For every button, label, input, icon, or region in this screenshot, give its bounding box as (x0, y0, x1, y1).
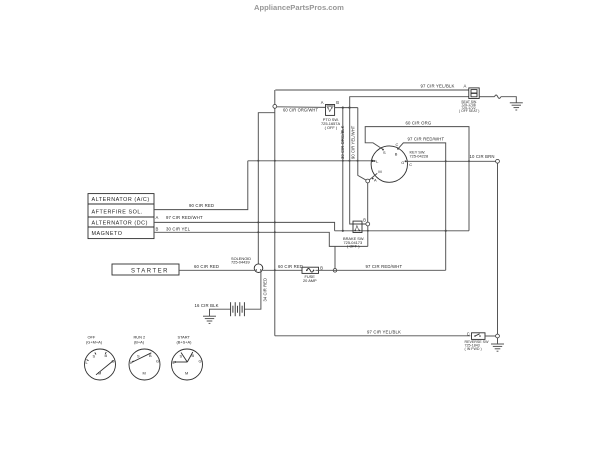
wire: 10 CIR BRN (key G to reverse node) (406, 154, 500, 334)
svg-text:AFTERFIRE SOL.: AFTERFIRE SOL. (92, 209, 143, 215)
reverse switch 725-1843 (465, 331, 490, 351)
svg-text:97 CIR RED/WHT: 97 CIR RED/WHT (366, 264, 403, 269)
ground: seat circuit (510, 103, 523, 110)
svg-text:60 CIR RED: 60 CIR RED (194, 264, 219, 269)
wire: starter to solenoid (179, 264, 254, 271)
wire: 97 CIR YEL/BLK bottom run (275, 329, 471, 336)
svg-text:ALTERNATOR (A/C): ALTERNATOR (A/C) (92, 197, 150, 203)
svg-text:A: A (321, 100, 324, 105)
node: key M/A junction (366, 173, 377, 222)
svg-text:725-04228: 725-04228 (410, 154, 429, 159)
svg-text:97 CIR YEL/BLK: 97 CIR YEL/BLK (367, 329, 401, 334)
wire: drop x=342.8 to kill line (342, 108, 344, 231)
rotated wire label 90 CIR YEL/WHT (351, 125, 356, 159)
svg-text:B: B (395, 152, 398, 157)
svg-text:30 CIR ORG/BLK: 30 CIR ORG/BLK (340, 125, 345, 159)
svg-text:C: C (467, 331, 470, 336)
svg-text:(B+S+A): (B+S+A) (177, 340, 193, 345)
svg-text:S: S (93, 354, 96, 359)
svg-text:C: C (396, 142, 399, 147)
svg-text:97 CIR RED/WHT: 97 CIR RED/WHT (166, 215, 203, 220)
svg-text:G: G (156, 359, 159, 364)
svg-text:60 CIR ORG/WHT: 60 CIR ORG/WHT (283, 107, 318, 112)
svg-text:AppliancePartsPros.com: AppliancePartsPros.com (254, 3, 344, 12)
svg-text:B: B (336, 100, 339, 105)
svg-text:B: B (156, 226, 159, 231)
wire: PTO B out (335, 107, 358, 109)
wire: 90 CIR RED (afterfire row to key L line) (154, 161, 248, 210)
svg-text:34 CIR RED: 34 CIR RED (263, 278, 268, 302)
solenoid 725-04439 (231, 256, 263, 273)
wire: 97 CIR YEL/BLK top run (275, 83, 469, 90)
wire: solenoid to fuse (263, 264, 303, 271)
wire: battery - to ground (195, 303, 231, 316)
wire: reverse switch to ground node (485, 334, 499, 344)
key position diagram START (172, 335, 203, 381)
engine connection table (88, 194, 154, 239)
svg-text:( OFF ): ( OFF ) (347, 244, 360, 249)
wire: left main vertical (274, 90, 276, 336)
wire: branch to solenoid riser (258, 113, 275, 264)
key position diagram RUN 2 (129, 335, 160, 381)
svg-text:G: G (401, 160, 404, 165)
node: harness connector (273, 105, 277, 109)
svg-text:(B+A): (B+A) (134, 340, 145, 345)
svg-text:A: A (464, 84, 467, 89)
svg-text:20 AMP: 20 AMP (303, 278, 317, 283)
svg-text:16 CIR BLK: 16 CIR BLK (195, 303, 219, 308)
svg-text:60 CIR ORG: 60 CIR ORG (406, 120, 432, 125)
wire: seat switch B to ground w/ break (479, 95, 516, 103)
svg-text:725-04439: 725-04439 (231, 260, 250, 265)
svg-text:M: M (143, 371, 146, 376)
svg-text:( OFF ): ( OFF ) (325, 125, 338, 130)
svg-text:( OFF SEAT ): ( OFF SEAT ) (459, 109, 479, 113)
svg-text:MAGNETO: MAGNETO (92, 231, 123, 237)
node: brake output (366, 222, 370, 246)
key switch 725-04228 (371, 142, 428, 183)
svg-text:M: M (185, 371, 188, 376)
svg-text:( IN FWD ): ( IN FWD ) (465, 347, 482, 351)
svg-text:97 CIR YEL/BLK: 97 CIR YEL/BLK (421, 83, 455, 88)
svg-text:M: M (378, 169, 381, 174)
wire: 60 CIR ORG (key S to x=469 riser) (365, 120, 470, 231)
svg-text:A: A (374, 177, 377, 182)
seat switch 725-1708 (459, 88, 479, 113)
wire: key L line (248, 160, 374, 162)
svg-text:G: G (199, 359, 202, 364)
watermark header (254, 3, 344, 12)
svg-text:B: B (320, 265, 323, 270)
brake switch (343, 217, 366, 248)
wire: fuse to key B riser, 97 CIR RED/WHT (316, 264, 446, 270)
svg-text:ALTERNATOR (DC): ALTERNATOR (DC) (92, 221, 148, 227)
svg-text:B: B (363, 217, 366, 222)
svg-text:STARTER: STARTER (131, 268, 169, 274)
svg-text:90 CIR RED: 90 CIR RED (189, 203, 214, 208)
wire: seat lower run from x=349.7 (350, 97, 469, 224)
svg-text:10 CIR BRN: 10 CIR BRN (470, 154, 495, 159)
svg-text:S: S (137, 354, 140, 359)
battery (231, 302, 245, 316)
rotated wire label 30 CIR ORG/BLK (340, 125, 345, 159)
wire: drop x=357.8 to key M/A node (358, 108, 366, 181)
svg-text:(G+M+A): (G+M+A) (86, 340, 103, 345)
starter box (112, 264, 179, 275)
svg-text:S: S (383, 150, 386, 155)
svg-text:C: C (409, 162, 412, 167)
fuse 20 amp (302, 265, 323, 283)
key position diagram OFF (85, 335, 116, 381)
svg-text:30 CIR YEL: 30 CIR YEL (166, 226, 191, 231)
wire: under-brake kill line to x=469 riser (335, 230, 469, 232)
svg-text:97 CIR RED/WHT: 97 CIR RED/WHT (408, 137, 445, 142)
wire: 97 CIR RED/WHT (key B riser) (398, 137, 447, 271)
svg-text:A: A (156, 215, 159, 220)
wire: A 97 CIR RED/WHT (alternator DC row) (154, 215, 335, 231)
ground: battery (203, 316, 216, 323)
PTO switch 725-1657A (321, 100, 340, 130)
wire: B 30 CIR YEL (magneto row) (154, 226, 368, 272)
svg-text:60 CIR RED: 60 CIR RED (278, 264, 303, 269)
wire: 60 CIR ORG/WHT to PTO A (277, 100, 326, 113)
wire: solenoid to battery + (245, 272, 268, 309)
svg-text:90 CIR YEL/WHT: 90 CIR YEL/WHT (351, 125, 356, 159)
ground: reverse/brn circuit (491, 344, 504, 351)
